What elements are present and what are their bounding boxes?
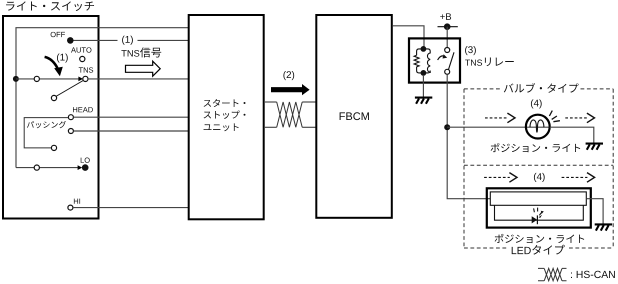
label (2) — [283, 71, 294, 80]
relay switch blade — [448, 52, 454, 70]
relay switch bottom contact — [445, 69, 450, 74]
contact on LO wire — [34, 165, 39, 170]
label LEDタイプ — [512, 245, 565, 255]
dashed arrow left of bulb — [485, 113, 515, 123]
HI contact — [68, 205, 73, 210]
lower wiper contact — [51, 145, 56, 150]
+B node dot — [444, 23, 451, 30]
label ポジション・ライト (bulb) — [491, 143, 581, 152]
OFF contact (filled) — [67, 37, 74, 44]
wire: junction to bulb — [447, 126, 549, 128]
LO contact (filled) — [82, 164, 89, 171]
relay coil top node — [421, 46, 427, 52]
relay actuate arrow — [438, 56, 446, 60]
wiper arm end contact — [51, 95, 56, 100]
label バルブ・タイプ — [504, 83, 579, 93]
+B terminal bar — [438, 26, 458, 28]
start-stop unit text スタート・ストップ・ユニット — [204, 99, 246, 131]
label TNS信号 — [121, 47, 161, 57]
label ポジション・ライト (LED) — [495, 234, 585, 243]
label (1) on OFF wire — [122, 36, 133, 45]
relay coil resistor zigzag — [414, 55, 419, 67]
LED module inner top rect — [490, 192, 586, 205]
LED diode symbol D1 — [532, 216, 538, 223]
ground (relay coil) — [415, 98, 432, 104]
label (4) LED — [534, 173, 545, 182]
passing contact — [68, 129, 73, 134]
relay coil bottom node — [421, 70, 427, 76]
relay switch top contact — [445, 48, 450, 53]
wire: +B down to relay switch — [446, 27, 448, 48]
switch action curved arrow — [45, 57, 58, 69]
node: output junction — [444, 124, 450, 130]
light switch box SW1 — [3, 16, 99, 219]
legend label : HS-CAN — [571, 271, 615, 278]
HEAD label — [73, 107, 93, 112]
twisted pair symbol — [277, 102, 303, 127]
passing label パッシング — [27, 121, 66, 128]
wire: CAN-L — [264, 126, 277, 128]
AUTO contact — [80, 56, 85, 61]
start-stop unit box U1 — [189, 15, 264, 219]
wire: relay output down to LED light — [447, 74, 490, 198]
wire: passing to start-stop unit — [73, 130, 188, 132]
relay coil inductor — [423, 49, 430, 73]
TNS contact — [83, 76, 88, 81]
wiper pivot contact on TNS wire — [34, 76, 39, 81]
bulb rays — [549, 111, 560, 122]
dashed arrow right LED — [562, 173, 595, 183]
HEAD contact — [68, 115, 73, 120]
relay coil branches — [417, 49, 424, 73]
wire: switch common rail (vertical + top run to start-stop unit) — [16, 28, 188, 168]
wire: TNS contact to start-stop unit — [88, 78, 188, 80]
label (1) switch action — [57, 53, 68, 62]
wiper arm (diagonal) — [56, 81, 83, 97]
wiper arrowhead at TNS — [78, 77, 83, 82]
+B label — [440, 13, 451, 20]
wire: OFF to start-stop unit, gap for (1) — [74, 39, 118, 41]
TNS label — [79, 67, 93, 72]
wire: bulb to ground — [550, 127, 594, 143]
wire: common rail bottom to LO — [16, 167, 78, 169]
node: common junction dot — [13, 76, 19, 82]
black arrow (2) — [271, 84, 310, 95]
FBCM box U2 — [316, 15, 392, 218]
wire: HEAD to start-stop unit — [73, 116, 188, 118]
TNS signal hollow arrow — [126, 61, 161, 76]
ground (LED) — [595, 224, 612, 230]
label (3) TNSリレー — [465, 46, 514, 66]
dashed arrow right of bulb — [565, 113, 594, 123]
dashed enclosure (bulb type / LED type) — [464, 89, 613, 248]
w41.9 h8.0 — [204, 110, 246, 118]
LED module outer box — [487, 188, 591, 227]
wire: common to TNS wiper — [16, 78, 79, 80]
wire: HI to start-stop unit — [73, 207, 188, 209]
bulb filament — [530, 120, 544, 132]
w41.9 h8.4 — [204, 123, 239, 131]
TNS relay box K1 — [409, 38, 460, 82]
light switch label ライト・スイッチ — [6, 1, 94, 11]
wire: CAN-H — [264, 101, 277, 103]
HI label — [74, 199, 80, 204]
OFF label — [51, 32, 65, 37]
wire: FBCM to relay coil — [393, 26, 424, 47]
LO label — [81, 158, 90, 163]
LED rays — [534, 208, 543, 216]
wiper arrowhead at LO — [78, 165, 83, 170]
w10.8 h9.1 — [465, 57, 514, 66]
wire: LED module to ground — [586, 199, 603, 225]
wire: coil to ground — [422, 76, 424, 97]
label (4) bulb — [531, 99, 542, 108]
bulb lamp symbol — [526, 115, 550, 139]
ground (bulb) — [586, 144, 603, 150]
AUTO label — [71, 47, 91, 52]
dashed arrow left LED — [484, 173, 517, 183]
LED module inner bottom rect — [495, 205, 584, 220]
legend twisted pair symbol — [538, 268, 567, 280]
FBCM text — [340, 112, 369, 120]
wire: HEAD L-link to lower wiper — [24, 118, 68, 148]
